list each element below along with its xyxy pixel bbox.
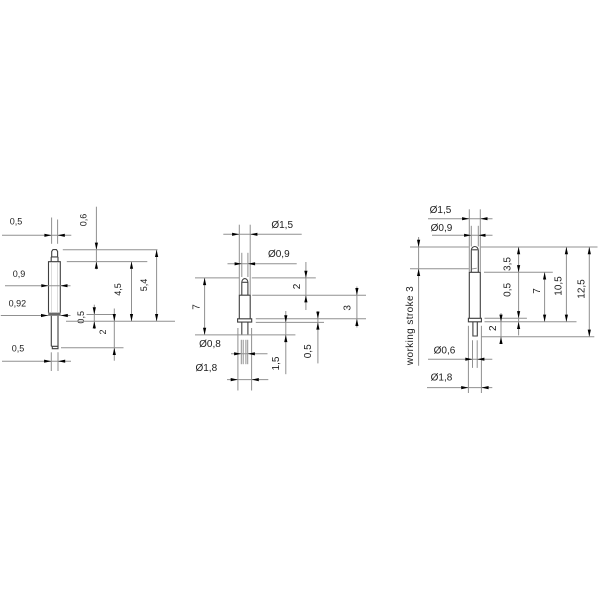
dim 3 middle (355, 287, 358, 328)
dim 0,92 ring width (1, 314, 71, 317)
dim Ø0,9 right (432, 234, 493, 237)
svg-text:5,4: 5,4 (139, 279, 149, 292)
svg-text:2: 2 (98, 329, 108, 334)
dim 0,5 middle flange (316, 311, 319, 363)
svg-text:Ø0,8: Ø0,8 (199, 339, 221, 350)
dim 3,5 right (517, 247, 520, 335)
dim Ø0,6 right (428, 358, 492, 361)
probe3 wire extension lines (473, 340, 478, 368)
probe1 lower pin (51, 316, 58, 349)
probe3 plunger with dome tip (471, 246, 478, 272)
dim 0,5 bottom: extension lines (2, 352, 71, 371)
dim 2 pin length (113, 309, 116, 361)
probe1 plunger tip outline (51, 250, 58, 262)
probe3 solder tail (473, 322, 477, 336)
dim 1,5 middle (284, 311, 287, 374)
svg-text:Ø0,9: Ø0,9 (431, 223, 453, 234)
extension line flange top right L3 (485, 317, 527, 319)
mounting plane line middle drawing (195, 334, 295, 336)
svg-text:2: 2 (488, 325, 499, 331)
svg-text:1,5: 1,5 (271, 356, 282, 370)
dim 0,6 vertical (tip length) (95, 207, 98, 270)
extension line flange bottom middle (256, 321, 324, 323)
extension line pin bottom (61, 347, 124, 349)
dim 7 middle (203, 278, 206, 335)
extension line flange top middle (256, 318, 366, 320)
svg-text:Ø1,8: Ø1,8 (195, 363, 217, 374)
svg-text:working stroke 3: working stroke 3 (405, 286, 416, 366)
svg-text:3: 3 (343, 305, 354, 311)
svg-text:0,9: 0,9 (13, 269, 26, 279)
probe1 barrel body (49, 262, 61, 313)
dim 10,5 right (565, 247, 568, 322)
dim Ø0,8 middle (231, 352, 268, 355)
dim Ø1,8 right (427, 386, 492, 389)
dim 0,5 right flange (517, 311, 520, 329)
probe1 tip extension lines (52, 218, 58, 244)
svg-text:Ø1,8: Ø1,8 (431, 373, 453, 384)
probe2 plunger extension lines (242, 253, 248, 277)
svg-text:0,5: 0,5 (10, 217, 23, 227)
dim 12,5 right (588, 247, 591, 337)
svg-text:0,92: 0,92 (9, 299, 27, 309)
probe2 tail stub (242, 322, 248, 335)
dim 4,5 (130, 262, 133, 322)
svg-text:4,5: 4,5 (113, 283, 123, 296)
dim 5,4 (155, 250, 158, 321)
svg-text:Ø1,5: Ø1,5 (271, 220, 293, 231)
probe2 sleeve (239, 295, 250, 319)
probe3 press flange (468, 318, 481, 322)
svg-text:3,5: 3,5 (503, 257, 514, 271)
probe3 sleeve extension lines top (469, 209, 480, 271)
svg-text:0,5: 0,5 (503, 283, 514, 297)
dim Ø1,8 middle (227, 378, 268, 381)
probe2 sleeve extension lines (239, 225, 250, 295)
probe2 press flange (238, 319, 252, 322)
svg-text:7: 7 (192, 304, 203, 310)
dim 0,5 ring standoff (87, 305, 114, 329)
svg-text:0,6: 0,6 (78, 214, 88, 227)
dim 0,9 body width (5, 284, 71, 287)
dim Ø0,9 middle (228, 262, 297, 265)
extension line shoulder (67, 261, 148, 263)
extension line sleeve top right L2 (484, 271, 553, 273)
dim 0,5 tip width: line (2, 234, 71, 237)
extension line tip top level L1 (410, 246, 598, 248)
svg-text:12,5: 12,5 (576, 279, 587, 299)
svg-text:0,5: 0,5 (303, 344, 314, 358)
mounting plane line left drawing (66, 320, 175, 322)
extension line flange bottom right L4 (485, 321, 577, 323)
svg-text:10,5: 10,5 (554, 276, 565, 296)
working stroke dim (410, 237, 469, 366)
probe2 plunger with dome tip (242, 279, 248, 296)
dim Ø1,5 middle (223, 233, 301, 236)
dim Ø1,5 right (428, 217, 493, 220)
extension line tail bottom L5 (481, 336, 594, 338)
svg-text:Ø0,6: Ø0,6 (434, 346, 456, 357)
dim 7 right (543, 272, 546, 322)
probe2 Ø1,8 extension lines (238, 328, 252, 391)
svg-text:7: 7 (532, 288, 543, 294)
svg-text:0,5: 0,5 (12, 344, 25, 354)
dim 2 middle (tip protrusion) (304, 262, 307, 310)
svg-text:Ø1,5: Ø1,5 (430, 205, 452, 216)
extension line plunger tip level: left and right (195, 277, 316, 279)
extension line tip top (63, 249, 158, 251)
probe2 tail below board with wire (241, 340, 247, 364)
extension line sleeve top middle (252, 294, 366, 296)
svg-text:2: 2 (292, 283, 303, 289)
probe3 sleeve (469, 272, 480, 318)
probe3 plunger extension lines top (471, 226, 478, 247)
dim 2 right (499, 313, 502, 344)
probe1 press ring (48, 313, 60, 316)
svg-text:Ø0,9: Ø0,9 (268, 249, 290, 260)
probe3 Ø1,8 extension lines (468, 326, 481, 393)
